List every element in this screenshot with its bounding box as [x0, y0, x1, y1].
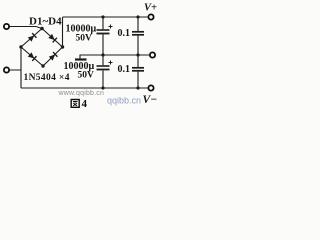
- diode D4 arm B-R: [49, 52, 58, 61]
- node B: [41, 64, 44, 67]
- wire AC input bottom: [10, 69, 21, 71]
- wire bridge arm T-R: [42, 29, 63, 48]
- svg-text:50V: 50V: [78, 71, 95, 81]
- terminal 0V mid: [150, 52, 155, 57]
- svg-text:V−: V−: [143, 94, 158, 106]
- svg-text:4: 4: [82, 98, 88, 110]
- capacitor C3 10000u: [97, 55, 113, 88]
- diode D2 arm T-R: [48, 34, 57, 43]
- diode D3 arm L-B: [28, 52, 37, 61]
- node L: [19, 45, 22, 48]
- junction top rail C2: [136, 15, 139, 18]
- wire AC input top: [10, 27, 42, 29]
- junction bottom rail C4: [136, 86, 139, 89]
- svg-text:qqibb.cn: qqibb.cn: [107, 96, 141, 106]
- wire bridge arm B-R: [43, 47, 63, 66]
- terminal V+: [148, 14, 153, 19]
- svg-text:0.1: 0.1: [118, 64, 131, 75]
- wire right vertical to top rail: [63, 17, 64, 47]
- center tap bar: [75, 58, 87, 60]
- svg-text:www.qqibb.cn: www.qqibb.cn: [58, 90, 105, 97]
- wire bridge arm L-B: [21, 47, 43, 66]
- junction bottom rail C3: [101, 86, 104, 89]
- wire top rail: [64, 16, 148, 18]
- node R: [61, 45, 64, 48]
- svg-text:50V: 50V: [76, 34, 93, 44]
- wire bottom rail: [22, 87, 148, 89]
- terminal V-: [148, 85, 153, 90]
- node T: [40, 27, 43, 30]
- wire center tap stub: [79, 55, 81, 59]
- svg-text:D1~D4: D1~D4: [29, 16, 62, 28]
- terminal AC1: [4, 24, 9, 29]
- wire left vertical to bottom rail: [21, 47, 22, 88]
- diode D1 arm L-T: [28, 33, 37, 42]
- capacitor C1 10000u: [97, 17, 113, 55]
- capacitor C4 0.1: [132, 55, 144, 88]
- label figure 4 (drawn glyph tu + 4): [71, 100, 79, 108]
- junction mid rail C2: [136, 53, 139, 56]
- capacitor C2 0.1: [132, 17, 144, 55]
- wire mid rail: [80, 54, 149, 56]
- junction top rail C1: [101, 15, 104, 18]
- svg-text:V+: V+: [144, 3, 157, 14]
- svg-text:1N5404 ×4: 1N5404 ×4: [24, 73, 70, 83]
- terminal AC2: [4, 67, 9, 72]
- junction mid rail C1: [101, 53, 104, 56]
- svg-text:0.1: 0.1: [118, 28, 131, 39]
- wire bridge arm L-T: [21, 29, 42, 48]
